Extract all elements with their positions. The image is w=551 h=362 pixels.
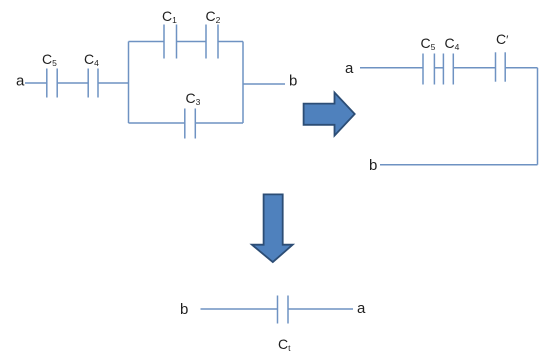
arrow down (transform step 2)	[252, 194, 293, 262]
node a (left circuit)	[16, 73, 25, 90]
svg-text:b: b	[180, 301, 188, 318]
capacitor C2	[206, 25, 218, 59]
capacitor C5 (right circuit)	[423, 54, 434, 85]
svg-text:C4: C4	[84, 51, 99, 68]
wire top branch right	[218, 41, 243, 43]
node b (bottom circuit)	[180, 301, 188, 318]
svg-text:C4: C4	[445, 35, 460, 52]
wire bottom to node b (right circuit)	[380, 164, 538, 166]
capacitor C5	[47, 69, 57, 98]
wire C' to right corner	[505, 67, 537, 69]
capacitor C3	[185, 109, 196, 139]
capacitor Ct	[278, 296, 289, 324]
wire C1 to C2	[177, 41, 207, 43]
svg-text:a: a	[16, 73, 25, 90]
wire C5 to C4 (right circuit)	[434, 67, 443, 69]
arrow right (transform step 1)	[304, 93, 355, 136]
wire bottom branch right	[195, 122, 243, 124]
wire b to Ct	[201, 308, 278, 310]
wire C4 to parallel box	[98, 82, 129, 84]
svg-text:Ct: Ct	[278, 336, 291, 353]
svg-text:b: b	[289, 73, 297, 90]
capacitor C1	[164, 25, 177, 59]
wire top branch left	[129, 41, 165, 43]
capacitor C4	[88, 69, 98, 98]
svg-text:C1: C1	[162, 8, 177, 25]
node b (left circuit)	[289, 73, 297, 90]
svg-text:C5: C5	[421, 35, 436, 52]
capacitor C4 (right circuit)	[443, 54, 453, 85]
wire right vertical of parallel section	[242, 42, 244, 124]
wire a to C5	[25, 82, 47, 84]
wire left vertical of parallel section	[128, 42, 130, 124]
svg-text:C5: C5	[42, 51, 57, 68]
node a (bottom circuit)	[357, 300, 366, 317]
wire a to C5 (right circuit)	[360, 67, 423, 69]
svg-text:C3: C3	[186, 90, 201, 107]
wire right vertical (right circuit)	[537, 68, 539, 165]
wire Ct to a	[288, 308, 353, 310]
svg-text:a: a	[345, 60, 354, 77]
svg-text:b: b	[369, 157, 377, 174]
svg-text:C2: C2	[206, 8, 221, 25]
svg-text:C′: C′	[496, 31, 509, 47]
node b (right circuit)	[369, 157, 377, 174]
capacitor C'	[496, 52, 506, 81]
wire C4 to C'	[453, 67, 495, 69]
svg-text:a: a	[357, 300, 366, 317]
wire C5 to C4	[57, 82, 88, 84]
node a (right circuit)	[345, 60, 354, 77]
wire to node b	[243, 83, 285, 85]
wire bottom branch left	[129, 122, 185, 124]
